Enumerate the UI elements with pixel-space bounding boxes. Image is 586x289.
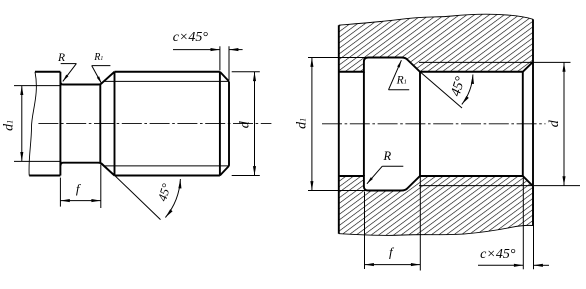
svg-text:45°: 45° bbox=[155, 182, 174, 203]
svg-text:d: d bbox=[238, 120, 253, 128]
svg-text:R1: R1 bbox=[93, 52, 103, 63]
svg-text:c×45°: c×45° bbox=[173, 30, 209, 45]
svg-text:f: f bbox=[76, 181, 82, 196]
svg-text:R1: R1 bbox=[396, 75, 407, 87]
svg-text:R: R bbox=[382, 149, 391, 163]
svg-text:R: R bbox=[57, 52, 65, 64]
svg-text:c×45°: c×45° bbox=[480, 247, 516, 262]
svg-text:d1: d1 bbox=[2, 120, 17, 131]
svg-text:45°: 45° bbox=[449, 75, 469, 99]
svg-text:d1: d1 bbox=[295, 118, 310, 129]
svg-text:d: d bbox=[547, 119, 562, 127]
svg-text:f: f bbox=[389, 244, 395, 259]
